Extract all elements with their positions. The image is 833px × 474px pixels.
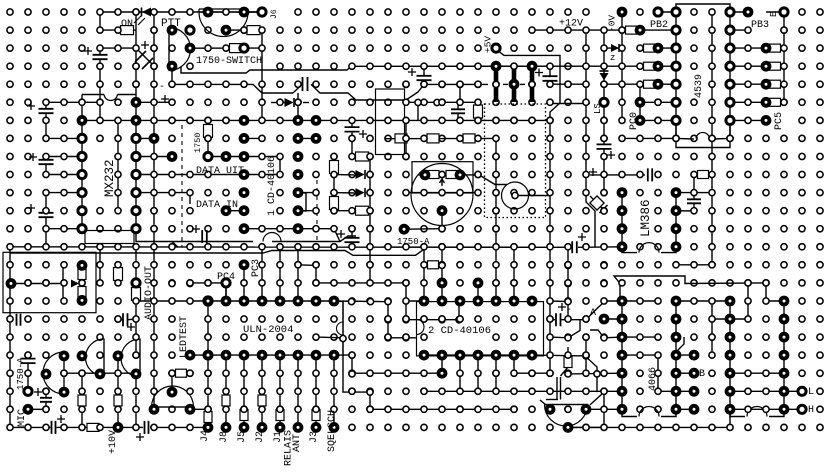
wire — [604, 83, 622, 85]
pad — [781, 63, 787, 69]
pad — [187, 9, 193, 15]
pad — [43, 280, 49, 286]
wire — [135, 373, 137, 427]
pad ringed — [672, 26, 680, 34]
pad — [61, 424, 67, 430]
pad filled — [725, 332, 736, 343]
pad — [619, 45, 625, 51]
resistor — [446, 171, 457, 179]
pad — [547, 334, 553, 340]
pad filled — [761, 97, 772, 108]
wire — [614, 276, 766, 302]
capacitor — [202, 230, 207, 243]
wire — [45, 218, 47, 229]
wire — [503, 83, 508, 85]
pad — [223, 117, 229, 123]
wire — [457, 114, 459, 121]
pad — [349, 117, 355, 123]
pad — [61, 370, 67, 376]
wire — [604, 300, 658, 302]
plus mark — [161, 95, 169, 103]
pad — [349, 63, 355, 69]
pad — [745, 117, 751, 123]
wire — [298, 265, 316, 301]
wire — [729, 301, 731, 409]
pad — [97, 352, 103, 358]
pad filled — [437, 350, 448, 361]
wire — [64, 372, 136, 374]
pad — [511, 388, 517, 394]
pad — [709, 208, 715, 214]
wire — [590, 196, 604, 210]
pad — [7, 316, 13, 322]
pad — [313, 226, 319, 232]
wire — [388, 337, 417, 339]
pad — [241, 316, 247, 322]
resistor — [204, 125, 213, 138]
pad — [259, 334, 265, 340]
pad — [151, 9, 157, 15]
pad — [655, 388, 661, 394]
pad — [223, 334, 229, 340]
pad — [385, 117, 391, 123]
wire — [406, 101, 478, 103]
svg-text:LS: LS — [593, 103, 603, 114]
pad — [655, 352, 661, 358]
pad — [259, 226, 265, 232]
pad — [97, 45, 103, 51]
pad — [277, 226, 283, 232]
pad — [439, 244, 445, 250]
svg-text:MIC: MIC — [17, 409, 28, 427]
transistor — [121, 339, 140, 377]
wire — [207, 355, 209, 409]
svg-text:J8: J8 — [219, 431, 230, 443]
wire — [136, 229, 253, 242]
pad filled — [617, 223, 628, 234]
svg-text:L: L — [808, 387, 814, 398]
pad — [313, 262, 319, 268]
wire — [712, 137, 730, 140]
pad — [709, 298, 715, 304]
pad — [151, 280, 157, 286]
capacitor — [40, 398, 52, 402]
pad filled — [221, 205, 232, 216]
wire — [622, 336, 658, 338]
pad filled — [419, 350, 430, 361]
pad — [151, 153, 157, 159]
pad — [475, 63, 481, 69]
pad — [565, 280, 571, 286]
wire — [181, 66, 604, 73]
pad — [475, 81, 481, 87]
pad — [169, 424, 175, 430]
pad — [349, 298, 355, 304]
capacitor — [39, 213, 54, 217]
pad — [151, 262, 157, 268]
wire — [351, 132, 353, 157]
pad filled — [689, 368, 700, 379]
pad — [547, 352, 553, 358]
pad filled — [671, 368, 682, 379]
pad — [439, 190, 445, 196]
pad — [97, 424, 103, 430]
pad — [421, 388, 427, 394]
pad filled — [689, 350, 700, 361]
pad — [691, 208, 697, 214]
pad — [547, 135, 553, 141]
wire — [261, 247, 263, 301]
wire — [172, 84, 293, 93]
svg-text:1750-A: 1750-A — [16, 357, 26, 390]
wire — [603, 391, 605, 427]
pad — [673, 135, 679, 141]
pad — [277, 117, 283, 123]
wire jumper — [639, 243, 659, 253]
pad — [25, 244, 31, 250]
pad — [43, 208, 49, 214]
wire — [406, 228, 442, 231]
wire — [136, 300, 208, 302]
wire — [81, 279, 83, 287]
pad filled — [617, 404, 628, 415]
pad — [601, 335, 607, 341]
wire — [272, 236, 356, 242]
wire — [171, 373, 173, 391]
pad filled — [77, 260, 88, 271]
svg-text:DATA UIT: DATA UIT — [196, 166, 244, 177]
pad — [511, 63, 517, 69]
IC CD-40106 outline — [417, 302, 544, 356]
pad — [619, 27, 625, 33]
wire — [135, 120, 137, 228]
pad — [340, 335, 346, 341]
wire — [82, 94, 104, 96]
pad filled — [203, 296, 214, 307]
pad — [709, 316, 715, 322]
pad — [313, 388, 319, 394]
svg-text:B: B — [699, 369, 705, 380]
svg-text:4066: 4066 — [648, 367, 659, 391]
wire — [333, 157, 335, 211]
pad — [151, 99, 157, 105]
pad filled — [275, 422, 286, 433]
pad filled — [239, 133, 250, 144]
pad — [205, 280, 211, 286]
pad ringed — [78, 170, 86, 178]
pad filled — [725, 296, 736, 307]
diode — [356, 170, 365, 179]
pad — [403, 99, 409, 105]
pad filled — [185, 404, 196, 415]
wire — [405, 120, 407, 156]
pad filled — [563, 422, 574, 433]
pad — [547, 117, 553, 123]
wire — [532, 355, 597, 392]
pad — [169, 81, 175, 87]
pad — [673, 424, 679, 430]
wire — [676, 408, 694, 410]
wire — [226, 210, 244, 212]
pad — [547, 208, 553, 214]
wire — [405, 283, 407, 301]
pad — [655, 298, 661, 304]
pad — [79, 81, 85, 87]
pad — [583, 244, 589, 250]
pad — [367, 226, 373, 232]
pad — [457, 171, 463, 177]
wire — [676, 390, 694, 392]
pad — [61, 99, 67, 105]
pad — [7, 298, 13, 304]
wire — [417, 103, 419, 121]
pad — [511, 406, 517, 412]
wire — [567, 347, 569, 357]
wire — [46, 228, 82, 230]
pad — [493, 190, 499, 196]
pad — [457, 190, 463, 196]
svg-text:1750: 1750 — [193, 133, 203, 153]
pad filled — [509, 350, 520, 361]
pad — [385, 406, 391, 412]
wire — [441, 265, 443, 301]
pad — [331, 280, 337, 286]
pad ringed — [798, 387, 806, 395]
pad — [151, 226, 157, 232]
pad — [25, 370, 31, 376]
pad — [655, 424, 661, 430]
pad — [331, 406, 337, 412]
pad — [331, 99, 337, 105]
pad — [745, 45, 751, 51]
pad ringed — [726, 98, 734, 106]
pad — [601, 171, 607, 177]
resistor — [78, 395, 86, 406]
pad filled — [671, 332, 682, 343]
pad — [61, 280, 67, 286]
pad — [547, 81, 553, 87]
pad — [223, 388, 229, 394]
pad — [781, 27, 787, 33]
pad filled — [293, 296, 304, 307]
wire — [46, 137, 82, 139]
pad filled — [743, 7, 754, 18]
pad — [727, 135, 733, 141]
pad filled — [491, 350, 502, 361]
wire — [351, 242, 353, 247]
pad — [403, 190, 409, 196]
wire — [676, 192, 712, 194]
pad — [457, 370, 463, 376]
pad — [439, 63, 445, 69]
pad — [745, 27, 751, 33]
pad — [115, 388, 121, 394]
pad — [187, 244, 193, 250]
resistor — [222, 395, 230, 406]
pad — [187, 171, 193, 177]
pad — [313, 208, 319, 214]
pad — [529, 117, 535, 123]
wire — [495, 355, 497, 391]
pad — [583, 45, 589, 51]
pad filled — [599, 314, 610, 325]
wire — [189, 196, 191, 204]
wire — [676, 354, 694, 356]
pad — [259, 27, 265, 33]
pad filled — [725, 368, 736, 379]
pad — [259, 45, 265, 51]
pad ringed — [132, 189, 140, 197]
pad — [241, 280, 247, 286]
wire — [621, 301, 623, 409]
pad — [367, 388, 373, 394]
pad — [367, 299, 373, 305]
wire — [279, 355, 281, 427]
wire — [385, 137, 496, 139]
pad ringed — [600, 98, 608, 106]
diode — [600, 73, 609, 81]
wire — [370, 408, 514, 410]
pad — [619, 424, 625, 430]
pad filled — [275, 350, 286, 361]
pad — [385, 244, 391, 250]
wire — [297, 93, 299, 120]
pad — [565, 370, 571, 376]
wire — [136, 137, 154, 139]
pad — [115, 316, 121, 322]
pad ringed — [780, 8, 788, 16]
pad — [763, 406, 769, 412]
pad — [601, 388, 607, 394]
pad ringed — [132, 152, 140, 160]
pad — [709, 9, 715, 15]
pad — [403, 81, 409, 87]
pad — [151, 298, 157, 304]
wire — [62, 265, 64, 301]
wire — [441, 211, 443, 229]
pad — [709, 262, 715, 268]
resistor — [644, 80, 655, 88]
wire — [298, 210, 316, 212]
pad — [457, 298, 463, 304]
pad filled — [77, 351, 88, 362]
wire — [747, 283, 749, 319]
pad filled — [293, 151, 304, 162]
pad filled — [293, 350, 304, 361]
pad — [763, 370, 769, 376]
resistor — [330, 197, 339, 210]
pad — [331, 316, 337, 322]
wire — [100, 29, 136, 31]
wire — [293, 84, 302, 93]
wire — [730, 408, 784, 410]
pad — [187, 280, 193, 286]
pad filled — [779, 296, 790, 307]
pad ringed — [672, 116, 680, 124]
pad — [313, 190, 319, 196]
pad filled — [311, 133, 322, 144]
pad — [61, 262, 67, 268]
pad ringed — [204, 152, 212, 160]
wire — [27, 355, 29, 358]
pad — [133, 316, 139, 322]
pad — [529, 27, 535, 33]
wire — [514, 355, 550, 373]
pad — [385, 334, 391, 340]
resistor — [240, 410, 248, 421]
pad — [601, 262, 607, 268]
pad ringed — [798, 405, 806, 413]
wire — [730, 83, 784, 85]
box module — [376, 89, 405, 155]
pad — [385, 299, 391, 305]
wire — [45, 102, 47, 109]
pad — [151, 424, 157, 430]
wire — [621, 12, 623, 120]
pad filled — [131, 115, 142, 126]
wire — [694, 174, 712, 176]
pad — [583, 388, 589, 394]
pad — [115, 117, 121, 123]
pad filled — [671, 223, 682, 234]
pad filled — [617, 296, 628, 307]
pad ringed — [222, 279, 230, 287]
pad — [115, 9, 121, 15]
svg-text:LEDTEST: LEDTEST — [179, 316, 190, 358]
pad — [529, 370, 535, 376]
pad — [151, 171, 157, 177]
resistor — [427, 134, 439, 143]
pad — [331, 208, 337, 214]
pad — [151, 45, 157, 51]
pad — [619, 171, 625, 177]
pad — [619, 135, 625, 141]
wire — [261, 355, 263, 427]
pad filled — [653, 43, 664, 54]
resistor — [770, 80, 781, 88]
pad — [43, 388, 49, 394]
wire — [730, 101, 784, 103]
resistor — [114, 395, 122, 406]
wire — [590, 392, 604, 405]
wire — [298, 192, 316, 194]
capacitor — [52, 421, 56, 434]
pad filled — [671, 187, 682, 198]
svg-text:PB2: PB2 — [650, 20, 668, 31]
wire — [568, 372, 622, 375]
pad — [295, 99, 301, 105]
pad — [367, 81, 373, 87]
pad — [151, 190, 157, 196]
wire — [117, 265, 119, 283]
wire — [640, 29, 676, 31]
thick — [530, 68, 535, 103]
resistor — [644, 44, 655, 52]
pad — [169, 117, 175, 123]
capacitor — [556, 313, 561, 326]
wire — [367, 174, 370, 176]
pad — [511, 45, 517, 51]
wire — [661, 409, 676, 416]
pad — [115, 153, 121, 159]
pad filled — [455, 350, 466, 361]
pad — [637, 171, 643, 177]
pad filled — [671, 296, 682, 307]
wire — [225, 283, 227, 301]
wire — [46, 101, 100, 103]
wire — [730, 29, 748, 31]
pad — [367, 117, 373, 123]
